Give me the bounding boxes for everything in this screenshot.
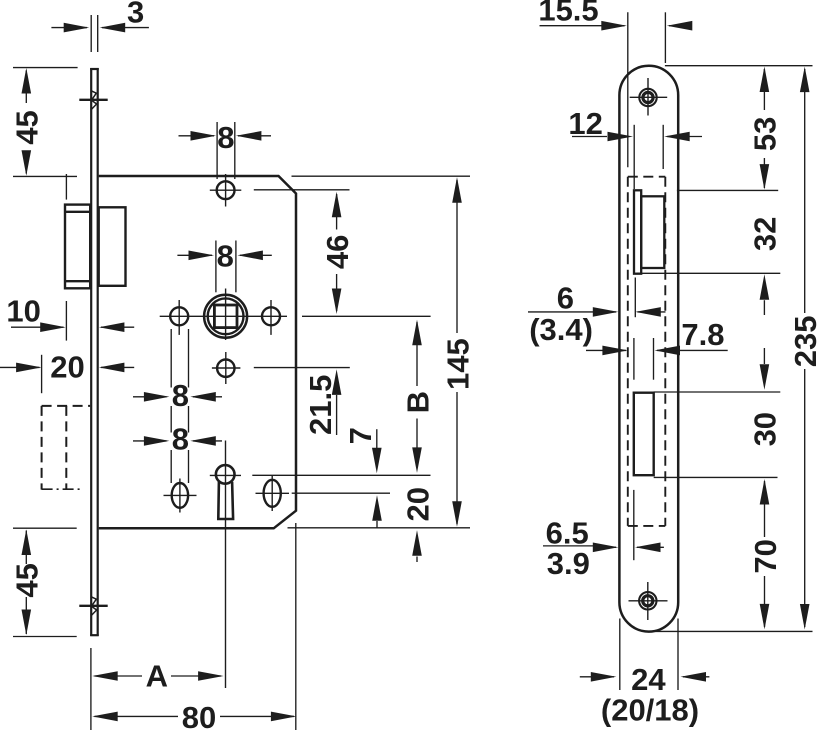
- dimension 53: [748, 67, 783, 190]
- dimension 80: [92, 700, 296, 730]
- top screw: [639, 89, 656, 106]
- svg-text:20: 20: [400, 487, 435, 521]
- dimension 8 (spindle square): [177, 239, 271, 293]
- svg-text:30: 30: [748, 412, 783, 446]
- dimension 145: [440, 177, 475, 527]
- deadbolt opening: [634, 393, 654, 476]
- dimension 70: [748, 479, 783, 629]
- svg-text:80: 80: [182, 700, 216, 730]
- dimension 30: [748, 348, 783, 446]
- lock case outline: [99, 176, 296, 528]
- latch bolt head: [65, 205, 90, 289]
- dimension 8 (row 3): [133, 329, 222, 433]
- svg-text:(3.4): (3.4): [529, 312, 593, 347]
- svg-text:8: 8: [217, 239, 234, 274]
- top screw hole circle: [217, 181, 235, 199]
- svg-text:3: 3: [127, 0, 144, 29]
- dimension 45 bottom: [10, 528, 77, 636]
- keyhole: [216, 465, 235, 519]
- dashed strike box: [42, 406, 91, 490]
- dash-dot base line: [42, 488, 81, 490]
- right side extension lines: [637, 66, 813, 632]
- top circle centerlines: [210, 174, 350, 207]
- svg-text:10: 10: [6, 293, 40, 328]
- bottom screw: [639, 592, 656, 609]
- hub centerlines: [160, 289, 431, 341]
- svg-text:3.9: 3.9: [547, 546, 590, 581]
- latch tip extension tick: [65, 174, 67, 200]
- dimension 8 (top hole): [179, 120, 272, 179]
- dimension B: [400, 320, 435, 473]
- dimension 3 (faceplate thickness): [51, 0, 148, 32]
- dimension 10: [6, 293, 134, 340]
- svg-text:8: 8: [172, 422, 189, 457]
- right hole circle: [262, 307, 280, 325]
- keyhole centerlines: [210, 441, 431, 689]
- break mark top: [79, 91, 107, 110]
- left hole circle: [170, 307, 188, 325]
- extension line case top right: [292, 175, 471, 177]
- extension line case right edge down: [295, 523, 297, 730]
- dimension 32: [748, 217, 783, 315]
- latch opening with latch bolt: [634, 190, 664, 273]
- dashed lock case behind faceplate: [628, 177, 666, 526]
- dimension 7.8: [586, 317, 728, 380]
- left oval slot: [172, 483, 188, 508]
- dimension 20: [0, 349, 134, 393]
- svg-text:46: 46: [320, 235, 355, 269]
- svg-text:53: 53: [748, 117, 783, 151]
- dimension 7: [343, 427, 382, 528]
- svg-text:12: 12: [568, 106, 602, 141]
- dimension 20 right: [400, 487, 435, 562]
- svg-text:21.5: 21.5: [303, 375, 338, 435]
- svg-text:7: 7: [343, 427, 378, 444]
- svg-text:145: 145: [440, 338, 475, 390]
- svg-text:70: 70: [748, 539, 783, 573]
- extension line case bottom right: [288, 527, 471, 529]
- faceplate thickness extension lines (dim 3): [91, 15, 98, 52]
- small hole below hub: [217, 360, 234, 377]
- svg-text:B: B: [400, 391, 435, 413]
- dimension 6 (3.4): [528, 278, 666, 347]
- dimension 21.5: [303, 369, 342, 435]
- svg-text:8: 8: [217, 120, 234, 155]
- dimension 46: [320, 192, 355, 314]
- dimension A: [91, 648, 224, 730]
- dimension 15.5: [538, 0, 692, 167]
- svg-text:A: A: [146, 658, 168, 693]
- dimension 235: [788, 67, 820, 630]
- break mark bottom: [79, 597, 107, 616]
- dimension 6.5 / 3.9: [543, 490, 664, 581]
- follower hub with spindle square: [204, 295, 247, 338]
- svg-text:8: 8: [172, 378, 189, 413]
- svg-text:45: 45: [10, 563, 45, 597]
- svg-text:235: 235: [788, 316, 820, 368]
- svg-text:32: 32: [748, 217, 783, 251]
- svg-text:6: 6: [557, 280, 574, 315]
- latch bolt body: [99, 207, 126, 285]
- right oval slot: [264, 480, 281, 507]
- svg-text:(20/18): (20/18): [601, 692, 699, 727]
- svg-text:20: 20: [50, 349, 84, 384]
- faceplate outline: [619, 66, 678, 632]
- svg-text:45: 45: [10, 110, 45, 144]
- svg-text:7.8: 7.8: [681, 317, 724, 352]
- dimension 8 (row 4): [133, 422, 222, 484]
- dimension 12: [568, 106, 702, 189]
- svg-text:15.5: 15.5: [538, 0, 598, 28]
- faceplate side bar: [90, 68, 99, 636]
- dimension 45 top: [10, 68, 78, 177]
- dimension 24: [580, 619, 710, 697]
